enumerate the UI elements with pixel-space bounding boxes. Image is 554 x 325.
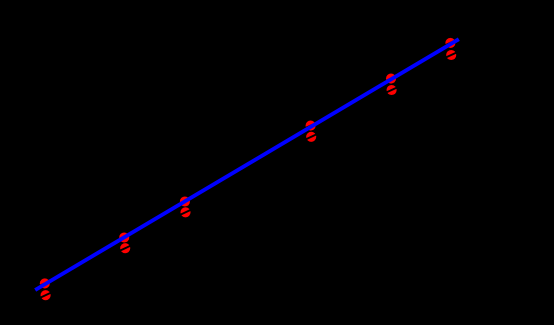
data point 1 bottom bbox=[40, 290, 50, 300]
data point 4 bottom bbox=[306, 132, 316, 142]
data point 5 top bbox=[386, 74, 396, 84]
data point 4 top bbox=[305, 121, 315, 131]
data point 5 bottom bbox=[386, 85, 396, 95]
data point 6 bottom bbox=[446, 50, 456, 60]
data point 2 bottom bbox=[120, 243, 130, 253]
data point 3 top bbox=[180, 196, 190, 206]
data point 2 top bbox=[119, 232, 129, 242]
data point 1 top bbox=[40, 278, 50, 288]
data point 6 top bbox=[445, 38, 455, 48]
best fit line bbox=[35, 39, 459, 290]
data point 3 bottom bbox=[180, 207, 190, 217]
